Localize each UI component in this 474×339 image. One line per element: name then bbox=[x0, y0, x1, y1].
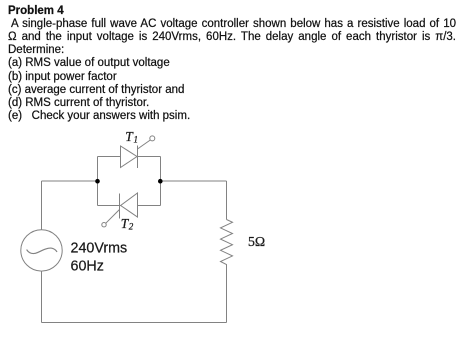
svg-text:60Hz: 60Hz bbox=[71, 259, 104, 275]
svg-text:240Vrms: 240Vrms bbox=[71, 240, 128, 256]
svg-text:2: 2 bbox=[129, 222, 134, 232]
svg-text:1: 1 bbox=[134, 135, 139, 145]
svg-text:5Ω: 5Ω bbox=[248, 234, 265, 249]
